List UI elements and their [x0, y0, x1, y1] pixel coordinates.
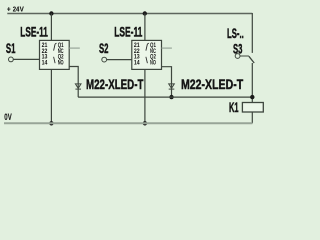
node: LED D2 junction on bus [169, 95, 173, 99]
svg-text:NO: NO [150, 59, 156, 66]
wire: LED bus [78, 96, 252, 98]
LSE-11 #2 output labels Q1 NC Q2 NO [150, 42, 156, 66]
wire: rail drop into LSE-11 #1 [50, 14, 52, 41]
svg-text:M22-XLED-T: M22-XLED-T [181, 76, 244, 92]
limit switch LSE-11 #2 box [132, 40, 162, 69]
NC output stub (unconnected) LSE-11 #1 [69, 47, 80, 49]
NC contact symbol inside LSE-11 #2 [146, 43, 149, 51]
svg-text:V: V [8, 112, 12, 122]
wire: S3 down to K1 [251, 63, 253, 103]
+24V label [7, 4, 25, 13]
NO contact symbol inside LSE-11 #1 [54, 57, 56, 63]
svg-text:14: 14 [134, 59, 140, 66]
node: return2 on 0V rail [143, 121, 147, 125]
switch S3 contact blade [249, 56, 254, 63]
wire: S1 to LSE-11 #1 [13, 58, 39, 60]
svg-text:NO: NO [58, 59, 64, 66]
LSE-11 #1 pin numbers 21 22 13 14 [42, 42, 48, 66]
wire: NO output of LSE-11 #1 to LED D1 [69, 67, 78, 98]
wire: NO output of LSE-11 #2 to LED D2 [162, 67, 172, 97]
LSE-11 #2 pin numbers 21 22 13 14 [134, 42, 140, 66]
svg-text:K1: K1 [229, 99, 239, 115]
0V label [4, 112, 12, 122]
wire: +24V rail corner down to S3 [251, 13, 253, 53]
node: rail junction to LSE-11 #1 [49, 11, 53, 15]
node: return1 on 0V rail [49, 121, 53, 125]
svg-text:S1: S1 [6, 40, 16, 56]
wire: S2 to LSE-11 #2 [107, 59, 132, 61]
svg-text:14: 14 [42, 59, 48, 66]
NC output stub (unconnected) LSE-11 #2 [162, 47, 172, 49]
wire: box1 return to 0V rail [50, 69, 52, 123]
limit switch LSE-11 #1 box [40, 40, 70, 69]
LED D2 M22-XLED-T symbol [169, 84, 175, 88]
0V rail [4, 122, 252, 124]
NC contact symbol inside LSE-11 #1 [54, 43, 57, 51]
svg-text:LSE-11: LSE-11 [20, 23, 48, 39]
LED D1 M22-XLED-T symbol [75, 84, 81, 88]
node: rail junction to LSE-11 #2 [143, 11, 147, 15]
actuator S1 roller circle [9, 57, 14, 62]
+24V rail [7, 13, 252, 15]
svg-text:LSE-11: LSE-11 [114, 23, 142, 39]
switch S3 roller circle [235, 54, 240, 59]
svg-text:S2: S2 [99, 40, 109, 56]
svg-text:+: + [7, 4, 11, 13]
wire: rail drop into LSE-11 #2 [144, 14, 146, 41]
svg-text:LS-..: LS-.. [227, 25, 244, 41]
actuator S2 roller circle [102, 57, 107, 62]
wire: box2 return to 0V rail [144, 69, 146, 123]
svg-text:M22-XLED-T: M22-XLED-T [86, 76, 144, 92]
LSE-11 #1 output labels Q1 NC Q2 NO [58, 42, 64, 66]
switch S3 actuator link [240, 55, 249, 57]
relay coil K1 box [242, 103, 263, 113]
NO contact symbol inside LSE-11 #2 [146, 57, 148, 63]
svg-text:S3: S3 [233, 41, 243, 57]
node: bus joins S3/K1 column [250, 95, 254, 99]
wire: K1 bottom to 0V rail [251, 112, 253, 123]
